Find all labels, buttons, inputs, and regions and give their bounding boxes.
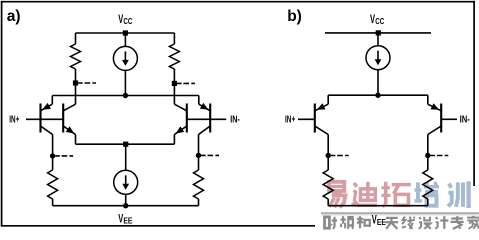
svg-text:b): b) xyxy=(287,8,302,25)
svg-text:CC: CC xyxy=(375,17,384,26)
svg-text:a): a) xyxy=(7,8,21,25)
svg-text:IN+: IN+ xyxy=(9,115,19,126)
svg-text:IN-: IN- xyxy=(230,115,240,126)
svg-text:EE: EE xyxy=(123,217,132,226)
svg-text:IN+: IN+ xyxy=(285,115,295,126)
svg-text:CC: CC xyxy=(123,17,132,26)
svg-text:EE: EE xyxy=(377,218,386,227)
svg-text:IN-: IN- xyxy=(460,115,470,126)
